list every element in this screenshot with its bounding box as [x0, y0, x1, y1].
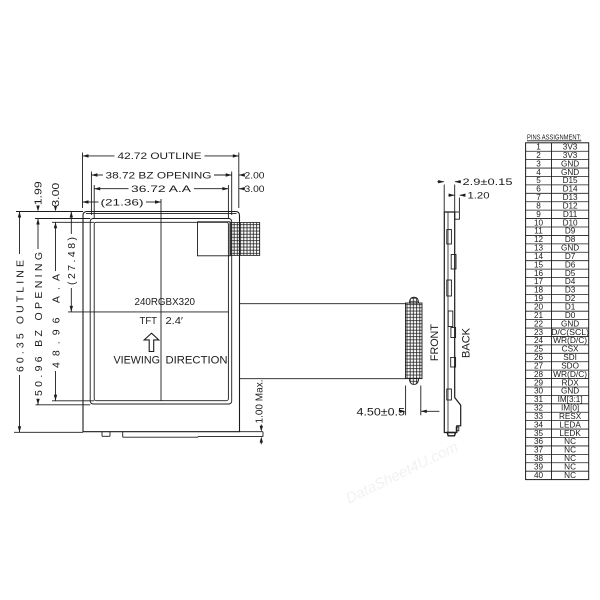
side bump 1: [447, 230, 452, 244]
svg-text:240RGBX320: 240RGBX320: [135, 297, 196, 308]
front view inner bezel top line: [86, 213, 237, 215]
side bump 3: [447, 280, 452, 296]
vertical centerline: [160, 199, 162, 401]
bottom lip line extending right: [198, 436, 263, 438]
side view bottom foot: [447, 433, 455, 436]
svg-text:38.72 BZ OPENING: 38.72 BZ OPENING: [106, 170, 212, 180]
side bump 4: [448, 311, 453, 327]
dimension 2.9±0.15: [443, 185, 445, 212]
svg-text:2.00: 2.00: [245, 170, 265, 180]
driver IC rect: [198, 222, 231, 256]
dimension 1.20: [448, 194, 454, 196]
side bump 7: [447, 389, 452, 400]
side view inner line: [447, 212, 449, 433]
svg-text:36.72 A.A: 36.72 A.A: [131, 184, 192, 194]
bottom lip top line: [240, 431, 264, 433]
svg-text:1.99: 1.99: [34, 181, 45, 206]
dimension 4.50±0.5: [405, 386, 407, 416]
dimension 42.72 OUTLINE: [83, 154, 89, 157]
svg-text:PINS ASSIGNMENT:: PINS ASSIGNMENT:: [527, 132, 581, 141]
dimension 38.72 BZ OPENING: [91, 173, 97, 176]
svg-text:BACK: BACK: [461, 327, 473, 358]
svg-text:1.20: 1.20: [468, 191, 490, 201]
FPC cable top edge: [240, 303, 406, 305]
svg-text:3.00: 3.00: [245, 184, 265, 194]
dimension 36.72 A.A: [94, 187, 100, 190]
svg-text:FRONT: FRONT: [429, 324, 441, 361]
pin table grid: [526, 143, 589, 480]
svg-text:42.72 OUTLINE: 42.72 OUTLINE: [118, 151, 202, 161]
bottom small tab left side: [101, 432, 103, 437]
svg-text:4.50±0.5: 4.50±0.5: [357, 407, 406, 419]
connector top bump: [410, 297, 419, 303]
side bottom step: [456, 427, 459, 431]
extension lines left: [16, 211, 83, 213]
svg-text:DIRECTION: DIRECTION: [166, 355, 228, 367]
svg-text:VIEWING: VIEWING: [114, 355, 161, 367]
svg-text:40: 40: [534, 471, 544, 480]
dimension 2.00: [239, 173, 245, 176]
front view module outline rect (rounded top corners, square bottom): [83, 212, 240, 432]
side bump 6: [451, 357, 456, 367]
svg-text:48.96 A.A: 48.96 A.A: [50, 274, 62, 368]
svg-text:2.9±0.15: 2.9±0.15: [463, 177, 513, 187]
horizontal centerline: [68, 311, 228, 313]
side bump 2: [451, 255, 456, 270]
bottom long tab: [122, 432, 124, 438]
dimension 60.35 OUTLINE (vertical): [18, 212, 21, 218]
svg-text:3.00: 3.00: [51, 182, 62, 207]
svg-text:(21.36): (21.36): [101, 197, 144, 207]
svg-text:2.4′: 2.4′: [166, 316, 184, 327]
connector bottom bump: [410, 379, 419, 385]
dimension 3.00: [239, 187, 245, 190]
bezel opening rect: [90, 219, 232, 405]
FPC end connector hatched: [406, 303, 423, 379]
side view body: [444, 212, 460, 433]
viewing direction arrow: [144, 333, 159, 351]
side view top glass ledge: [455, 212, 460, 219]
extension lines top: [82, 153, 84, 209]
dimension (21.36): [83, 200, 89, 203]
svg-text:TFT: TFT: [140, 316, 158, 327]
dimension (27.48) (vertical): [70, 212, 73, 218]
dimension 50.96 BZ OPENING (vertical): [36, 219, 39, 225]
FPC cable bottom edge: [240, 378, 406, 380]
svg-text:(27.48): (27.48): [66, 237, 78, 285]
FPC bonding hatched block: [230, 223, 260, 256]
svg-text:1.00 Max.: 1.00 Max.: [254, 380, 265, 424]
dimension 48.96 A.A (vertical): [54, 222, 57, 228]
svg-text:NC: NC: [564, 471, 576, 480]
side bump 5: [451, 328, 456, 338]
active area rect: [94, 222, 228, 400]
